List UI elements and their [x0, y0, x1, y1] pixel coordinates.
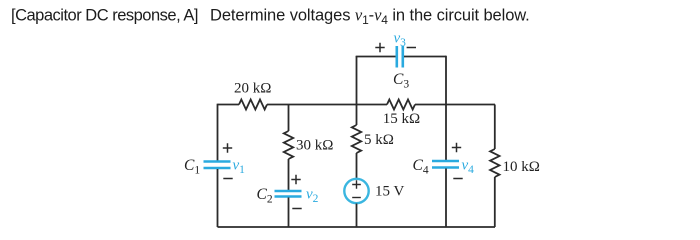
svg-text:v4: v4 [462, 158, 475, 177]
wire: top rail left segment [218, 104, 240, 106]
plus sign inside source [352, 180, 361, 189]
svg-text:20 kΩ: 20 kΩ [234, 81, 271, 97]
title text [11, 6, 530, 28]
wire: top rail right segment [415, 104, 495, 106]
svg-text:C2: C2 [257, 186, 273, 206]
wire: middle branch upper [288, 105, 290, 132]
wire: source branch upper [356, 105, 358, 126]
wire: middle branch lower [288, 198, 290, 228]
wire: C4 branch upper (from C3 loop through top rail) [445, 56, 447, 161]
wire: left branch lower [217, 169, 219, 227]
wire: C4 branch lower [445, 169, 447, 228]
wire: middle branch mid [288, 159, 290, 191]
wire: right branch upper [494, 105, 496, 150]
wire: C3 loop left vertical [356, 56, 358, 105]
wire: bottom rail [218, 226, 496, 228]
svg-text:15 V: 15 V [375, 184, 404, 200]
minus sign C3 [407, 47, 416, 49]
capacitor C1 plates [204, 162, 231, 169]
minus sign C4 [453, 178, 462, 180]
capacitor C4 plates [432, 161, 459, 168]
svg-text:C1: C1 [184, 157, 200, 177]
resistor 10 kOhm zigzag [490, 149, 499, 177]
capacitor C2 plates [275, 191, 302, 197]
voltage source 15 V circle [344, 179, 368, 203]
wire: C3 loop top-left segment [356, 56, 396, 58]
svg-text:C3: C3 [393, 71, 409, 91]
capacitor C3 plates (vertical) [397, 46, 403, 68]
wire: top rail middle segment [267, 104, 387, 106]
resistor 30 kOhm zigzag [284, 131, 293, 159]
wire: left branch upper [217, 104, 219, 161]
wire: C3 loop top-right segment [404, 56, 446, 58]
svg-text:v2: v2 [306, 187, 319, 206]
resistor 20 kOhm zigzag [239, 100, 267, 110]
plus sign C3 [375, 43, 384, 52]
plus sign C2 [291, 175, 300, 184]
resistor 15 kOhm zigzag [387, 100, 415, 110]
svg-text:v1: v1 [233, 158, 246, 177]
wire: source branch lower [356, 204, 358, 228]
minus sign C1 [223, 178, 232, 180]
minus sign inside source [352, 197, 361, 199]
svg-text:C4: C4 [413, 157, 429, 177]
svg-text:30 kΩ: 30 kΩ [296, 138, 333, 154]
svg-text:15 kΩ: 15 kΩ [383, 111, 420, 127]
minus sign C2 [292, 208, 301, 210]
svg-text:Determine voltages v1-v4 in th: Determine voltages v1-v4 in the circuit … [210, 6, 530, 28]
wire: right branch lower [494, 177, 496, 227]
svg-text:5 kΩ: 5 kΩ [364, 132, 394, 148]
plus sign C1 [223, 143, 232, 152]
plus sign C4 [452, 143, 461, 152]
svg-text:10 kΩ: 10 kΩ [503, 159, 540, 175]
svg-text:v3: v3 [394, 31, 407, 50]
svg-text:[Capacitor DC response, A]: [Capacitor DC response, A] [11, 7, 198, 25]
wire: source branch mid [356, 153, 358, 179]
resistor 5 kOhm zigzag [352, 125, 361, 153]
